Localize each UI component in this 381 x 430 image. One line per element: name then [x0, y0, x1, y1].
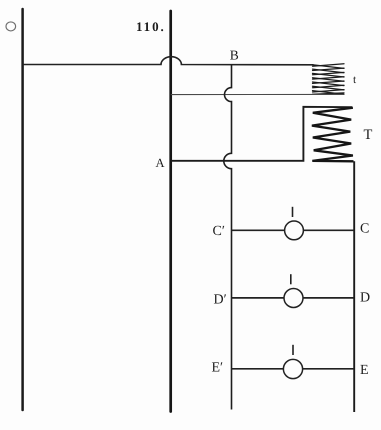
lamp D designator tick I: [290, 274, 292, 284]
svg-text:E: E: [360, 363, 369, 378]
svg-text:E′: E′: [212, 361, 224, 376]
wire: return supply feeder: [169, 11, 172, 412]
svg-text:D: D: [360, 291, 370, 306]
wire: lamp-bank left rail from node B, hops over two crossing wires: [224, 65, 232, 410]
lamp I in branch D: [284, 289, 303, 308]
wire: from return feeder to bottom of resistor t: [171, 93, 344, 95]
wire: top main conductor from O feeder to resistor t, hops over return feeder: [23, 57, 314, 65]
svg-text:B: B: [230, 48, 239, 63]
wire: branch row D: [232, 297, 355, 299]
lamp E designator tick I: [292, 345, 294, 355]
wire: branch row E: [232, 368, 355, 370]
svg-text:A: A: [156, 156, 165, 170]
svg-text:110.: 110.: [136, 19, 166, 34]
wire: left supply feeder O: [21, 9, 24, 410]
lamp I in branch E: [283, 359, 302, 378]
wire: branch row C: [232, 229, 355, 231]
svg-text:D′: D′: [214, 293, 227, 308]
inductor coil T (large zigzag): [312, 108, 354, 162]
svg-text:C: C: [360, 222, 369, 237]
node O label: [6, 22, 16, 31]
svg-text:C′: C′: [213, 224, 225, 239]
resistor t (compressed crisscross coil): [313, 64, 345, 94]
svg-text:T: T: [364, 127, 373, 143]
svg-text:t: t: [353, 74, 357, 86]
lamp C designator tick I: [292, 207, 294, 217]
wire: lamp-bank right rail from coil T bottom: [353, 161, 355, 412]
wire: from node A on return feeder up to coil T: [171, 107, 352, 161]
lamp I in branch C: [285, 221, 304, 240]
